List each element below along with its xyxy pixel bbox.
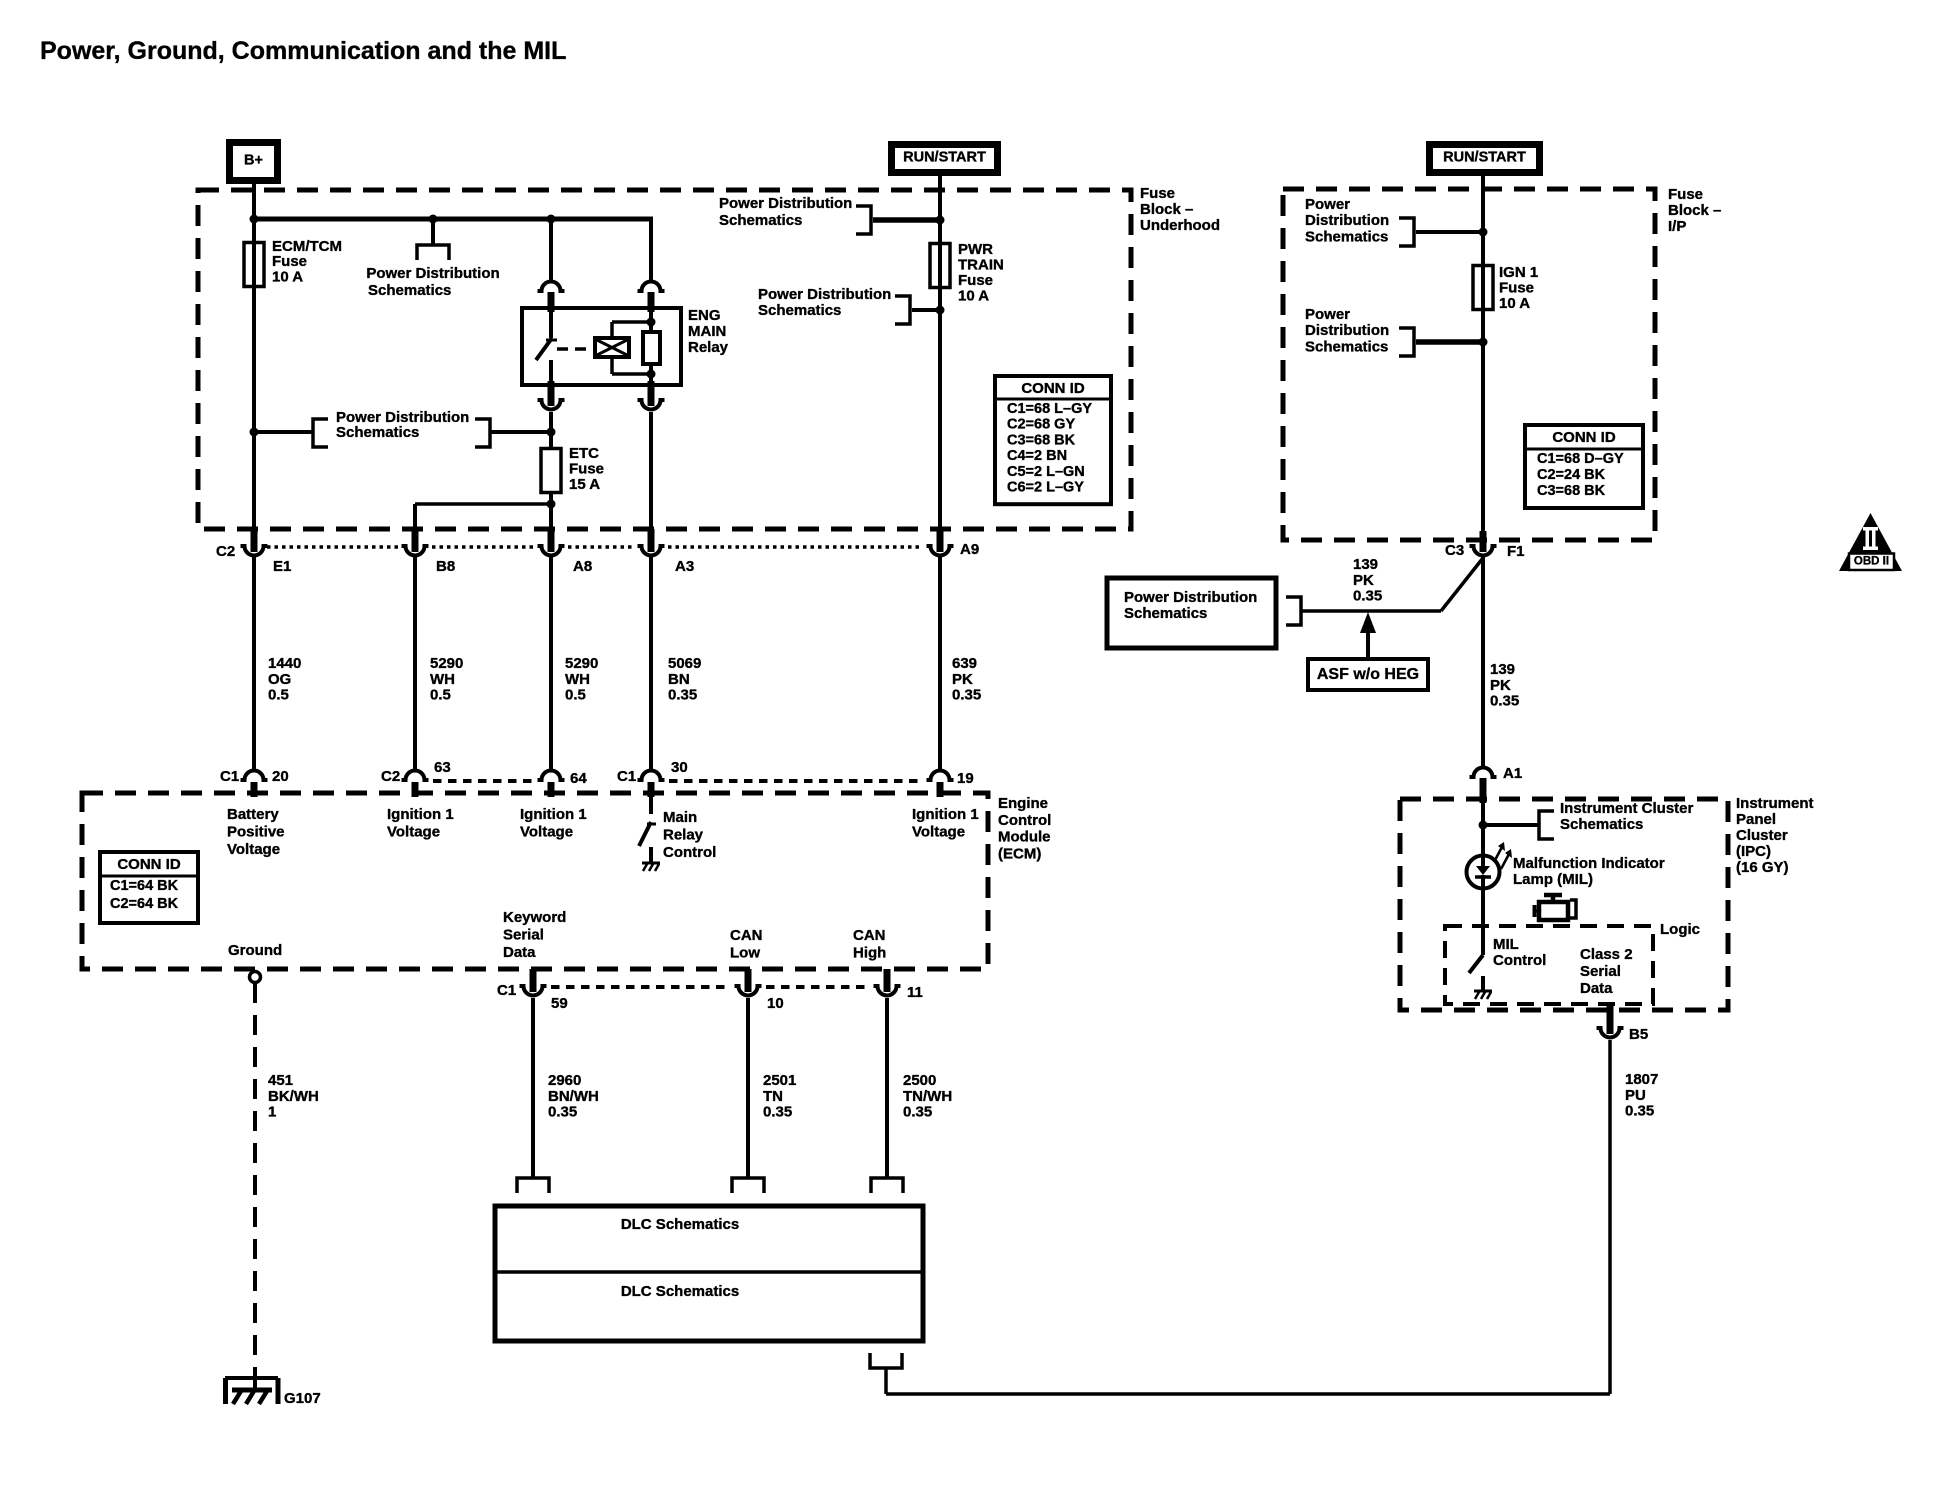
svg-text:Power: Power — [1305, 196, 1350, 213]
svg-text:2500: 2500 — [903, 1072, 936, 1089]
svg-text:CAN: CAN — [853, 927, 886, 944]
svg-text:Panel: Panel — [1736, 811, 1776, 828]
svg-text:C2=68 GY: C2=68 GY — [1007, 417, 1075, 433]
svg-text:C4=2 BN: C4=2 BN — [1007, 448, 1067, 464]
svg-text:RUN/START: RUN/START — [903, 150, 986, 166]
svg-text:Serial: Serial — [503, 927, 544, 944]
svg-text:Module: Module — [998, 829, 1051, 846]
svg-text:1: 1 — [268, 1104, 276, 1121]
svg-text:10: 10 — [767, 995, 784, 1012]
svg-text:0.35: 0.35 — [763, 1104, 792, 1121]
svg-text:ETC: ETC — [569, 445, 599, 462]
svg-text:Power Distribution: Power Distribution — [1124, 589, 1257, 606]
svg-text:C3=68 BK: C3=68 BK — [1537, 483, 1606, 499]
svg-text:BK/WH: BK/WH — [268, 1088, 319, 1105]
svg-text:C2: C2 — [216, 543, 235, 560]
svg-text:Main: Main — [663, 809, 697, 826]
svg-text:C6=2 L–GY: C6=2 L–GY — [1007, 480, 1084, 496]
svg-text:PU: PU — [1625, 1087, 1646, 1104]
svg-text:C2=24 BK: C2=24 BK — [1537, 467, 1606, 483]
svg-text:A8: A8 — [573, 558, 592, 575]
svg-text:Lamp (MIL): Lamp (MIL) — [1513, 871, 1593, 888]
svg-text:CAN: CAN — [730, 927, 763, 944]
svg-text:Engine: Engine — [998, 795, 1048, 812]
svg-text:RUN/START: RUN/START — [1443, 150, 1526, 166]
svg-text:TN: TN — [763, 1088, 783, 1105]
svg-text:Logic: Logic — [1660, 921, 1700, 938]
svg-text:A1: A1 — [1503, 765, 1522, 782]
svg-text:C1=68 D–GY: C1=68 D–GY — [1537, 451, 1624, 467]
svg-text:Distribution: Distribution — [1305, 322, 1389, 339]
svg-text:BN: BN — [668, 671, 690, 688]
svg-text:Instrument: Instrument — [1736, 795, 1814, 812]
svg-text:Ignition 1: Ignition 1 — [912, 806, 979, 823]
svg-text:0.5: 0.5 — [268, 687, 289, 704]
svg-text:(IPC): (IPC) — [1736, 843, 1771, 860]
svg-text:C1: C1 — [497, 982, 516, 999]
svg-text:63: 63 — [434, 759, 451, 776]
svg-text:(ECM): (ECM) — [998, 845, 1041, 862]
svg-text:(16 GY): (16 GY) — [1736, 859, 1789, 876]
svg-text:C5=2 L–GN: C5=2 L–GN — [1007, 464, 1085, 480]
svg-text:Power Distribution: Power Distribution — [719, 195, 852, 212]
svg-text:Voltage: Voltage — [520, 824, 573, 841]
svg-text:10 A: 10 A — [272, 268, 303, 285]
svg-text:Power Distribution: Power Distribution — [366, 265, 499, 282]
svg-text:E1: E1 — [273, 558, 291, 575]
svg-text:WH: WH — [565, 671, 590, 688]
svg-text:Positive: Positive — [227, 824, 285, 841]
svg-text:0.35: 0.35 — [1490, 693, 1519, 710]
svg-text:Battery: Battery — [227, 806, 279, 823]
svg-text:Schematics: Schematics — [758, 302, 841, 319]
svg-text:0.5: 0.5 — [430, 687, 451, 704]
svg-text:High: High — [853, 945, 886, 962]
svg-text:2501: 2501 — [763, 1072, 796, 1089]
svg-text:Fuse: Fuse — [1499, 280, 1534, 297]
svg-text:F1: F1 — [1507, 543, 1525, 560]
svg-text:OG: OG — [268, 671, 291, 688]
svg-text:Distribution: Distribution — [1305, 212, 1389, 229]
svg-text:Data: Data — [503, 944, 536, 961]
svg-text:5290: 5290 — [430, 655, 463, 672]
svg-text:Schematics: Schematics — [368, 282, 451, 299]
svg-text:WH: WH — [430, 671, 455, 688]
svg-text:PWR: PWR — [958, 241, 993, 258]
svg-text:Fuse: Fuse — [958, 272, 993, 289]
svg-text:Power Distribution: Power Distribution — [758, 286, 891, 303]
svg-text:639: 639 — [952, 655, 977, 672]
svg-text:A3: A3 — [675, 558, 694, 575]
svg-text:PK: PK — [952, 671, 973, 688]
svg-text:Control: Control — [1493, 952, 1546, 969]
svg-text:Voltage: Voltage — [387, 824, 440, 841]
svg-text:Cluster: Cluster — [1736, 827, 1788, 844]
svg-text:ASF w/o HEG: ASF w/o HEG — [1317, 666, 1419, 683]
svg-text:PK: PK — [1490, 677, 1511, 694]
svg-text:TN/WH: TN/WH — [903, 1088, 952, 1105]
svg-text:C2=64 BK: C2=64 BK — [110, 896, 179, 912]
svg-text:20: 20 — [272, 768, 289, 785]
svg-text:Control: Control — [663, 844, 716, 861]
svg-text:C3: C3 — [1445, 542, 1464, 559]
svg-text:0.5: 0.5 — [565, 687, 586, 704]
svg-text:Fuse: Fuse — [1668, 186, 1703, 203]
svg-text:IGN 1: IGN 1 — [1499, 264, 1538, 281]
svg-text:0.35: 0.35 — [548, 1104, 577, 1121]
svg-text:BN/WH: BN/WH — [548, 1088, 599, 1105]
svg-text:Ground: Ground — [228, 942, 282, 959]
svg-text:C2: C2 — [381, 768, 400, 785]
svg-text:Schematics: Schematics — [336, 424, 419, 441]
svg-text:Control: Control — [998, 812, 1051, 829]
svg-text:2960: 2960 — [548, 1072, 581, 1089]
svg-text:DLC Schematics: DLC Schematics — [621, 1216, 739, 1233]
svg-text:ENG: ENG — [688, 307, 721, 324]
svg-text:Schematics: Schematics — [1305, 338, 1388, 355]
svg-text:B5: B5 — [1629, 1026, 1648, 1043]
svg-text:Power: Power — [1305, 306, 1350, 323]
svg-text:19: 19 — [957, 770, 974, 787]
svg-text:I/P: I/P — [1668, 218, 1686, 235]
svg-text:CONN ID: CONN ID — [1552, 429, 1616, 446]
svg-text:5069: 5069 — [668, 655, 701, 672]
svg-text:Keyword: Keyword — [503, 909, 566, 926]
svg-text:DLC Schematics: DLC Schematics — [621, 1283, 739, 1300]
svg-text:1440: 1440 — [268, 655, 301, 672]
svg-text:OBD II: OBD II — [1854, 556, 1889, 568]
svg-text:Schematics: Schematics — [719, 212, 802, 229]
svg-text:64: 64 — [570, 770, 587, 787]
svg-text:11: 11 — [907, 984, 923, 1001]
svg-text:G107: G107 — [284, 1390, 321, 1407]
svg-text:Fuse: Fuse — [569, 461, 604, 478]
svg-text:Class 2: Class 2 — [1580, 946, 1633, 963]
svg-text:0.35: 0.35 — [952, 687, 981, 704]
svg-text:TRAIN: TRAIN — [958, 257, 1004, 274]
svg-text:C1=64 BK: C1=64 BK — [110, 878, 179, 894]
svg-text:Power, Ground, Communication a: Power, Ground, Communication and the MIL — [40, 37, 566, 65]
svg-text:59: 59 — [551, 995, 568, 1012]
svg-text:Data: Data — [1580, 980, 1613, 997]
svg-text:10 A: 10 A — [1499, 295, 1530, 312]
svg-text:C1: C1 — [617, 768, 636, 785]
svg-text:Ignition 1: Ignition 1 — [387, 806, 454, 823]
svg-text:Block –: Block – — [1668, 202, 1721, 219]
svg-text:0.35: 0.35 — [668, 687, 697, 704]
svg-text:0.35: 0.35 — [903, 1104, 932, 1121]
svg-text:Serial: Serial — [1580, 963, 1621, 980]
svg-text:Relay: Relay — [663, 827, 704, 844]
svg-text:B8: B8 — [436, 558, 455, 575]
svg-text:0.35: 0.35 — [1625, 1103, 1654, 1120]
svg-text:139: 139 — [1490, 661, 1515, 678]
svg-text:A9: A9 — [960, 541, 979, 558]
svg-text:PK: PK — [1353, 572, 1374, 589]
svg-text:B+: B+ — [244, 153, 263, 169]
svg-text:15 A: 15 A — [569, 476, 600, 493]
svg-text:Instrument Cluster: Instrument Cluster — [1560, 800, 1694, 817]
svg-text:Schematics: Schematics — [1305, 228, 1388, 245]
svg-text:C1=68 L–GY: C1=68 L–GY — [1007, 401, 1092, 417]
svg-text:C1: C1 — [220, 768, 239, 785]
svg-text:Fuse: Fuse — [1140, 185, 1175, 202]
svg-text:0.35: 0.35 — [1353, 588, 1382, 605]
svg-text:MAIN: MAIN — [688, 323, 726, 340]
svg-text:Voltage: Voltage — [227, 841, 280, 858]
svg-text:Block –: Block – — [1140, 201, 1193, 218]
svg-text:30: 30 — [671, 759, 688, 776]
svg-text:Low: Low — [730, 945, 760, 962]
svg-text:Relay: Relay — [688, 339, 729, 356]
svg-text:MIL: MIL — [1493, 936, 1519, 953]
svg-text:CONN ID: CONN ID — [117, 856, 181, 873]
svg-text:Ignition 1: Ignition 1 — [520, 806, 587, 823]
svg-text:CONN ID: CONN ID — [1021, 380, 1085, 397]
svg-text:C3=68 BK: C3=68 BK — [1007, 432, 1076, 448]
svg-text:Schematics: Schematics — [1560, 816, 1643, 833]
svg-text:10 A: 10 A — [958, 288, 989, 305]
svg-text:Schematics: Schematics — [1124, 605, 1207, 622]
svg-text:Malfunction Indicator: Malfunction Indicator — [1513, 855, 1665, 872]
svg-text:451: 451 — [268, 1072, 293, 1089]
svg-text:1807: 1807 — [1625, 1071, 1658, 1088]
svg-text:139: 139 — [1353, 556, 1378, 573]
svg-text:5290: 5290 — [565, 655, 598, 672]
svg-text:Voltage: Voltage — [912, 824, 965, 841]
svg-text:Underhood: Underhood — [1140, 217, 1220, 234]
